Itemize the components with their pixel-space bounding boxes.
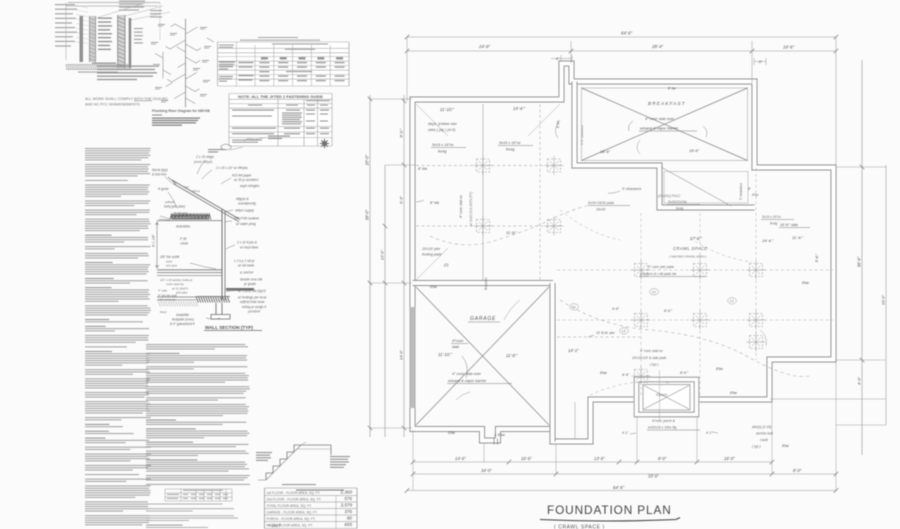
svg-text:24'-8": 24'-8": [478, 44, 491, 49]
svg-text:R-4bksbtn: R-4bksbtn: [174, 211, 188, 215]
svg-text:16'x16' pier: 16'x16' pier: [422, 247, 441, 251]
svg-text:anchor bolt: anchor bolt: [756, 432, 774, 436]
svg-text:2nd FLOOR - FLOOR AREA, SQ. FT: 2nd FLOOR - FLOOR AREA, SQ. FT.: [267, 498, 322, 502]
svg-text:wbls ( pty ) (4-0): wbls ( pty ) (4-0): [428, 128, 456, 132]
svg-text:5x16 x 16"oc: 5x16 x 16"oc: [432, 143, 454, 147]
svg-text:c 2 b p 2 sill pl: c 2 b p 2 sill pl: [234, 259, 254, 263]
svg-text:4"conc: 4"conc: [452, 339, 464, 343]
svg-text:w/fhobr: w/fhobr: [165, 200, 176, 204]
svg-text:376: 376: [344, 509, 352, 514]
svg-text:33'-6": 33'-6": [648, 474, 659, 479]
svg-text:18'-6": 18'-6": [689, 148, 700, 153]
svg-text:soundproofg: soundproofg: [238, 202, 256, 206]
svg-text:caulk: caulk: [760, 438, 768, 442]
svg-text:w/ water plmg: w/ water plmg: [236, 222, 256, 226]
svg-text:8'bw: 8'bw: [782, 444, 789, 448]
svg-text:2 x 10 x 16" oc Rfr/jsts: 2 x 10 x 16" oc Rfr/jsts: [215, 166, 248, 170]
svg-text:w/2 glue: w/2 glue: [166, 264, 178, 268]
svg-text:Ls: Ls: [652, 290, 656, 294]
svg-text:floorjstsv: floorjstsv: [484, 277, 488, 290]
svg-text:6" conc pier pads: 6" conc pier pads: [648, 265, 674, 269]
svg-text:R-grvbr: R-grvbr: [158, 187, 170, 191]
svg-text:14'-6": 14'-6": [399, 349, 404, 360]
svg-text:8'-0:": 8'-0:": [399, 128, 404, 138]
svg-text:psmtbnlr: psmtbnlr: [247, 310, 261, 314]
svg-text:16'-6": 16'-6": [783, 45, 795, 50]
svg-text:64'-6": 64'-6": [621, 31, 633, 36]
svg-text:footplate (conc): footplate (conc): [172, 318, 194, 322]
svg-text:11'-10:": 11'-10:": [438, 352, 452, 357]
svg-text:w/jfrnb frnbr bnwr: w/jfrnb frnbr bnwr: [240, 300, 266, 304]
svg-text:4" conc slab ov: 4" conc slab ov: [640, 349, 663, 353]
svg-text:prvmr vtlbybr: prvmr vtlbybr: [193, 160, 213, 164]
svg-text:8': 8': [556, 57, 559, 61]
svg-text:footg: footg: [770, 222, 777, 226]
svg-text:4'-0" clearance: 4'-0" clearance: [580, 125, 584, 145]
svg-text:14'-1": 14'-1": [568, 348, 579, 353]
svg-text:code spacing: code spacing: [166, 282, 184, 286]
svg-text:11'-4:": 11'-4:": [792, 235, 804, 240]
svg-text:a: anchor: a: anchor: [240, 271, 254, 275]
svg-text:( typ ): ( typ ): [752, 445, 761, 449]
svg-text:8" thk: 8" thk: [430, 201, 439, 205]
svg-text:blfgrps &: blfgrps &: [236, 197, 249, 201]
svg-text:( typ ): ( typ ): [650, 363, 658, 367]
svg-text:6'-6": 6'-6": [399, 195, 404, 204]
svg-text:bsfsj (per plan): bsfsj (per plan): [164, 205, 185, 209]
svg-text:GARAGE: GARAGE: [470, 316, 496, 322]
svg-text:( CRAWL SPACE ): ( CRAWL SPACE ): [554, 524, 605, 529]
svg-text:13'-6": 13'-6": [594, 456, 605, 461]
svg-text:4"conc porch &: 4"conc porch &: [652, 419, 676, 423]
svg-text:5x16 x 16"oc: 5x16 x 16"oc: [762, 215, 781, 219]
svg-text:8'bw: 8'bw: [716, 367, 723, 371]
svg-text:w/ footings per local: w/ footings per local: [238, 296, 266, 300]
svg-text:AND NC PCC W/AMENDMENTS: AND NC PCC W/AMENDMENTS: [85, 102, 140, 106]
svg-text:19'-0": 19'-0": [881, 294, 886, 305]
svg-text:w/ J-bolts fdn (typ?): w/ J-bolts fdn (typ?): [238, 289, 266, 293]
svg-text:+ 2x6T: + 2x6T: [268, 523, 281, 528]
svg-text:& 6" galvanized fl: & 6" galvanized fl: [170, 322, 195, 326]
svg-text:deps: jrnbtwr wbr: deps: jrnbtwr wbr: [428, 122, 458, 126]
svg-text:PORCH - FLOOR AREA, SQ. FT.: PORCH - FLOOR AREA, SQ. FT.: [267, 517, 316, 521]
svg-text:fbsnt: fbsnt: [160, 310, 167, 314]
svg-text:655: 655: [344, 522, 352, 527]
svg-text:1: 8'bw: 1: 8'bw: [494, 433, 505, 437]
svg-text:11'-8:": 11'-8:": [506, 230, 518, 235]
svg-text:footg: footg: [676, 207, 683, 211]
svg-text:5/8" PVB caulked: 5/8" PVB caulked: [234, 217, 259, 221]
svg-text:a2b plan: a2b plan: [176, 291, 188, 295]
svg-text:w/sand & vapor barrier: w/sand & vapor barrier: [640, 127, 679, 131]
svg-text:16'-0": 16'-0": [724, 456, 735, 461]
svg-text:8'-0": 8'-0": [793, 468, 802, 473]
svg-text:slab: slab: [452, 345, 459, 349]
svg-text:(2): (2): [444, 263, 448, 267]
svg-text:8' bw: 8' bw: [668, 87, 676, 91]
svg-text:w/bsq pr ssnge tr: w/bsq pr ssnge tr: [242, 305, 267, 309]
svg-text:Ls: Ls: [572, 305, 576, 309]
svg-text:CRAWL SPACE: CRAWL SPACE: [673, 246, 707, 251]
svg-text:footing pads: footing pads: [422, 253, 442, 257]
svg-text:w/spacrs & v blt pads bw: w/spacrs & v blt pads bw: [640, 272, 677, 276]
svg-text:vtrfyrn supply: vtrfyrn supply: [235, 209, 254, 213]
svg-text:5x16/12x16u: 5x16/12x16u: [668, 200, 687, 204]
svg-text:80: 80: [347, 516, 353, 521]
svg-text:abv(s) (2-16): abv(s) (2-16): [752, 425, 771, 429]
svg-text:13'-0": 13'-0": [380, 249, 385, 260]
svg-text:w/sand & vapor barrier: w/sand & vapor barrier: [448, 379, 487, 383]
svg-text:2,360: 2,360: [340, 490, 353, 495]
svg-text:576: 576: [344, 496, 352, 501]
svg-text:8'bw: 8'bw: [802, 281, 809, 285]
svg-text:w/ 2x10 CLG JSTS (TY): w/ 2x10 CLG JSTS (TY): [469, 192, 473, 226]
svg-text:6'bw: 6'bw: [448, 431, 455, 435]
svg-text:17'-6:": 17'-6:": [690, 236, 702, 241]
svg-text:cbtwk: cbtwk: [180, 242, 189, 246]
svg-text:39'-0": 39'-0": [365, 209, 370, 220]
svg-text:16'x16'x16' & slab pads: 16'x16'x16' & slab pads: [632, 356, 667, 360]
svg-text:4'-6": 4'-6": [857, 376, 862, 385]
svg-text:P 38: P 38: [180, 237, 187, 241]
svg-text:8'bw: 8'bw: [752, 193, 759, 197]
svg-text:3,579: 3,579: [341, 503, 353, 508]
svg-text:1st FLOOR - FLOOR AREA, SQ. FT: 1st FLOOR - FLOOR AREA, SQ. FT.: [267, 491, 321, 495]
svg-text:( VENTED CRAWL AREA ): ( VENTED CRAWL AREA ): [669, 255, 706, 259]
svg-text:4"porch: 4"porch: [656, 393, 667, 397]
svg-text:28'-4": 28'-4": [651, 44, 664, 49]
svg-text:8': 8': [748, 187, 751, 191]
svg-text:4" conc slab over: 4" conc slab over: [645, 117, 675, 121]
svg-text:16' B.M. abv: 16' B.M. abv: [596, 331, 615, 335]
svg-text:16'-6": 16'-6": [521, 456, 532, 461]
svg-text:w/ insul btwn: w/ insul btwn: [240, 246, 258, 250]
svg-text:5' clearance: 5' clearance: [739, 183, 743, 200]
svg-text:4slab/fdn: 4slab/fdn: [176, 313, 189, 317]
svg-text:34'-0": 34'-0": [481, 468, 492, 473]
svg-text:4'-4": 4'-4": [622, 373, 630, 377]
svg-text:16x16: 16x16: [596, 208, 605, 212]
svg-text:fascia (typ): fascia (typ): [152, 168, 168, 172]
svg-text:w/32x16 x 16oc ftg: w/32x16 x 16oc ftg: [648, 426, 676, 430]
svg-text:4" slab: 4" slab: [158, 289, 167, 293]
svg-text:8'bw: 8'bw: [430, 285, 437, 289]
svg-text:5x16 x 16"oc: 5x16 x 16"oc: [499, 141, 521, 145]
svg-text:8'-0:": 8'-0:": [680, 371, 689, 375]
svg-text:8'-0:": 8'-0:": [664, 309, 673, 313]
svg-text:footg: footg: [506, 148, 515, 152]
svg-text:L1: L1: [622, 329, 626, 333]
svg-text:11'-10:": 11'-10:": [440, 107, 454, 112]
svg-text:Astrnbtbv: Astrnbtbv: [175, 225, 191, 229]
svg-text:64'-6": 64'-6": [613, 485, 625, 490]
svg-text:16'-8:" slab: 16'-8:" slab: [780, 223, 798, 227]
svg-text:ALL WORK SHALL COMPLY WITH THE: ALL WORK SHALL COMPLY WITH THE 2018 IRC: [85, 97, 168, 101]
svg-text:36'-6": 36'-6": [857, 256, 862, 267]
svg-text:8" thk: 8" thk: [418, 167, 427, 171]
svg-text:FOUNDATION PLAN: FOUNDATION PLAN: [547, 503, 672, 517]
svg-text:TOTAL FLOOR AREA, SQ. FT.: TOTAL FLOOR AREA, SQ. FT.: [267, 504, 312, 508]
svg-text:3/8" thk subflr: 3/8" thk subflr: [160, 255, 180, 259]
svg-text:w/ 30 yr architect: w/ 30 yr architect: [234, 178, 258, 182]
svg-text:footg: footg: [438, 150, 447, 154]
svg-text:pr grade: pr grade: [243, 282, 256, 286]
svg-text:20'-0": 20'-0": [365, 154, 370, 166]
svg-text:14'-6": 14'-6": [455, 456, 466, 461]
svg-text:8'bw: 8'bw: [600, 371, 607, 375]
svg-text:14'-4:": 14'-4:": [762, 238, 774, 243]
svg-text:BREAKFAST: BREAKFAST: [648, 101, 686, 106]
svg-text:8'-1 1/8": 8'-1 1/8": [152, 234, 156, 247]
svg-text:5x16+16/16 pads: 5x16+16/16 pads: [588, 201, 614, 205]
svg-text:asph shingles: asph shingles: [240, 184, 260, 188]
svg-text:& 6x6 trim: & 6x6 trim: [152, 173, 167, 177]
svg-text:double conc-blk: double conc-blk: [240, 278, 263, 282]
svg-text:L1: L1: [730, 299, 734, 303]
svg-text:4'-1": 4'-1": [706, 431, 713, 435]
svg-text:8'-0": 8'-0": [658, 456, 667, 461]
svg-text:2 x 10 ridge: 2 x 10 ridge: [195, 155, 214, 159]
svg-text:4" conc slab ov: 4" conc slab ov: [459, 195, 463, 218]
svg-text:11'-8:": 11'-8:": [506, 353, 518, 358]
svg-text:GARAGE - FLOOR AREA, SQ. FT.: GARAGE - FLOOR AREA, SQ. FT.: [267, 511, 318, 515]
svg-text:18'-6": 18'-6": [600, 149, 611, 154]
svg-text:#15 felt paper: #15 felt paper: [232, 174, 252, 178]
svg-text:4'-1": 4'-1": [622, 431, 629, 435]
svg-text:NOTE: ALL THE J#TED 2 FASTENI: NOTE: ALL THE J#TED 2 FASTENING GUIDE: [238, 94, 323, 99]
svg-text:trim: trim: [184, 185, 189, 189]
svg-text:5'-8:": 5'-8:": [815, 253, 819, 262]
svg-text:blkmy: blkmy: [192, 189, 200, 193]
svg-text:w/ sill seals: w/ sill seals: [238, 264, 255, 268]
svg-text:8'bw: 8'bw: [730, 391, 737, 395]
svg-text:Plumbing Riser Diagram for GBV: Plumbing Riser Diagram for GBVXB: [152, 109, 210, 113]
svg-text:14'-4:": 14'-4:": [513, 106, 525, 111]
svg-text:5' clearance: 5' clearance: [622, 187, 641, 191]
svg-text:(2x12x1) PxCC: (2x12x1) PxCC: [658, 194, 681, 198]
svg-text:4'-4": 4'-4": [612, 307, 620, 311]
svg-text:2 x 10 fl jsts &: 2 x 10 fl jsts &: [236, 241, 257, 245]
svg-text:WALL SECTION (TYP): WALL SECTION (TYP): [205, 325, 253, 330]
svg-text:8': 8': [759, 60, 762, 64]
